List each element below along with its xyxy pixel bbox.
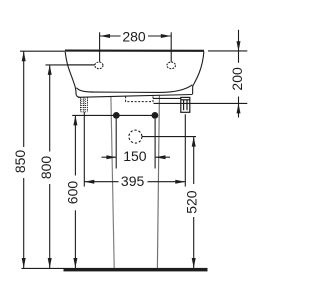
extension line 200 bottom [154,102,248,104]
dimension 800 vertical line [49,65,51,152]
svg-text:600: 600 [65,181,81,205]
tap hole left (dashed ellipse) [95,62,103,69]
arrow 850 bottom [22,258,26,268]
fixing hole dot left [113,112,120,119]
arrow 520 bottom [192,258,196,268]
dimension 520 vertical line [193,137,195,184]
washbasin right profile [193,51,204,94]
tap deck front line (left segment to tap hole) [67,64,94,66]
siphon connection dashed box [126,96,153,101]
280 leader left [99,32,101,62]
arrow 150 right (points left) [156,155,166,159]
washbasin left profile [65,52,80,98]
extension line 800 (tap hole level) [46,64,95,66]
150 extension left (from dot) [115,119,117,169]
washbasin bottom edge [78,95,192,98]
arrow 850 top [22,51,26,61]
280 leader right [170,32,172,62]
arrow 200 top (points down) [237,41,241,51]
arrow 280 right [161,34,171,38]
fixing hole dot right [152,112,159,119]
dimension 850 vertical line [23,51,25,147]
svg-text:850: 850 [12,150,28,174]
extension line 600 (fixing dots level) [72,114,155,116]
arrow 800 bottom [48,258,52,268]
drain dashed circle [129,130,142,143]
svg-text:150: 150 [123,148,147,164]
pedestal left edge [111,96,114,268]
395 extension left (from bolt) [83,112,85,187]
floor thick bar [64,268,208,272]
svg-text:395: 395 [121,173,145,189]
arrow 600 top [73,115,77,125]
arrow 280 left [100,34,110,38]
washbasin underside curve [76,85,192,93]
arrow 600 bottom [73,258,77,268]
dimension 200 vertical line [238,30,240,63]
150 extension right (from dot) [154,119,156,169]
dimension 395 line [84,181,118,183]
floor thin line [22,267,64,269]
extension line 520 (drain level) [142,136,196,138]
arrow 395 right (points right) [175,180,185,184]
arrow 520 top [192,137,196,147]
arrow 150 left (points right) [106,155,116,159]
svg-text:520: 520 [183,190,199,214]
svg-text:200: 200 [229,67,245,91]
dimension 280 line [100,35,121,37]
dimension 150 line tails [102,156,117,158]
svg-text:800: 800 [38,156,54,180]
arrow 800 top [48,65,52,75]
extension line 850 (rim top level) [20,50,65,52]
arrow 395 left (points left) [84,180,94,184]
svg-text:280: 280 [122,28,146,44]
extension line 200 top [208,50,247,52]
tap hole right (dashed ellipse) [167,62,176,69]
arrow 200 bottom (points up) [237,103,241,113]
dimension 600 vertical line [74,115,76,175]
pedestal right edge [157,96,159,268]
395 extension right (from bracket) [184,114,186,186]
fixing bracket right [181,97,190,112]
washbasin rim top [65,50,204,52]
fixing rail line right of dashed box [153,97,181,99]
fixing bolt left (threaded, dashed) [81,97,88,112]
